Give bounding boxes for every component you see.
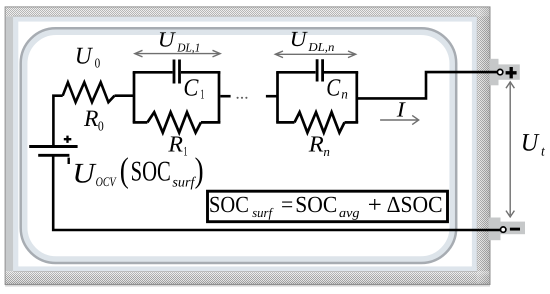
svg-text:avg: avg [339,205,360,220]
frame shading overlays [5,7,490,16]
wire: lead into RCn [266,95,278,98]
resistor R1 zigzag [147,112,201,132]
battery U_OCV negative plate (short) [38,154,69,157]
equation SOC_surf = SOC_avg + dSOC [209,192,443,220]
svg-text:SOC: SOC [209,192,249,217]
cell body inner glow ring 1 [24,32,453,260]
svg-text:U: U [158,27,176,51]
capacitor C1 plates [174,60,180,84]
svg-text:I: I [396,98,406,122]
svg-text:DL,n: DL,n [307,40,334,54]
label U_OCV(SOC_surf) [72,151,203,191]
svg-text:C: C [326,74,341,101]
svg-text:C: C [183,74,199,101]
svg-text:U: U [72,158,97,189]
svg-text:0: 0 [98,119,104,134]
RCn bottom branch left segment [276,121,294,124]
svg-text:1: 1 [200,87,204,102]
equation box [208,191,448,222]
current I arrow [380,115,419,124]
node circle at positive terminal [497,69,502,74]
svg-text:R: R [167,132,183,157]
label U_DL,n [290,27,335,54]
frame liner strip bottom [14,266,477,271]
wire: battery top vertical + left rail to R0 [53,96,62,147]
label R_1 [167,132,187,159]
ellipsis dots between RC blocks [237,97,248,99]
node circle at negative terminal [501,227,506,232]
negative terminal tab [489,218,526,241]
battery plus sign [64,136,72,143]
terminal plus sign [506,67,517,78]
cell body rounded rectangle (outer gray line) [21,28,457,263]
svg-text:ΔSOC: ΔSOC [387,192,443,217]
svg-text:U: U [521,130,540,157]
label U_t [521,130,546,160]
RCn bottom branch right segment [345,121,359,124]
label R_n [308,131,330,159]
frame liner strip left [13,17,18,271]
U_DL,1 measurement double arrow [135,50,220,57]
svg-text:(: ( [120,151,129,190]
frame inner edge line [14,16,477,271]
frame left band (smooth gray) [5,16,13,271]
RC1 top branch with capacitor gap [133,71,221,74]
U_DL,n measurement double arrow [275,51,355,58]
svg-text:U: U [290,27,308,51]
svg-text:1: 1 [183,144,187,159]
RC1 network box left edge [133,72,136,122]
RC1 bottom branch left segment [133,121,148,124]
svg-text:surf: surf [172,175,196,190]
RCn top branch with capacitor gap [276,71,358,74]
label U_DL,1 [158,27,201,54]
label R_0 [83,106,104,134]
wire: R0 to RC1 [115,94,135,97]
frame right band (checkered) [477,7,490,285]
svg-text:R: R [83,106,98,132]
RC1 box right edge [218,72,221,122]
RCn box right edge [355,72,358,122]
svg-text:=: = [281,192,293,217]
label U_0 [75,43,101,70]
svg-text:U: U [75,43,94,69]
label C_n [326,74,348,101]
label C_1 [183,74,204,101]
frame liner strip top [14,17,477,22]
wire: battery bottom vertical + bottom rail [53,155,500,231]
svg-text:DL,1: DL,1 [176,41,200,55]
svg-text:R: R [308,131,324,156]
frame bottom band (checkered) [5,271,490,284]
svg-text:): ) [195,151,204,190]
svg-text:n: n [341,87,348,102]
wire: RC1 output lead [220,95,230,98]
terminal voltage Ut double arrow [506,82,514,217]
RCn box left edge [276,72,279,122]
frame top band (checkered) [5,7,490,16]
battery U_OCV positive plate (long) [29,145,77,148]
capacitor Cn plates [317,59,323,81]
resistor Rn zigzag [295,112,345,132]
positive terminal tab [490,59,520,86]
terminal minus sign [510,228,520,231]
svg-text:OCV: OCV [96,174,118,189]
svg-text:surf: surf [252,205,274,220]
RC1 bottom branch right segment [201,121,221,124]
wire: RCn to step and positive terminal [357,72,497,98]
svg-text:0: 0 [95,56,101,71]
svg-text:SOC: SOC [295,192,337,217]
frame liner strip right [472,17,477,271]
battery minus tick [67,158,69,164]
svg-text:n: n [323,144,330,159]
resistor R0 zigzag [63,82,115,102]
svg-text:+: + [368,192,382,217]
svg-text:SOC: SOC [131,156,171,187]
